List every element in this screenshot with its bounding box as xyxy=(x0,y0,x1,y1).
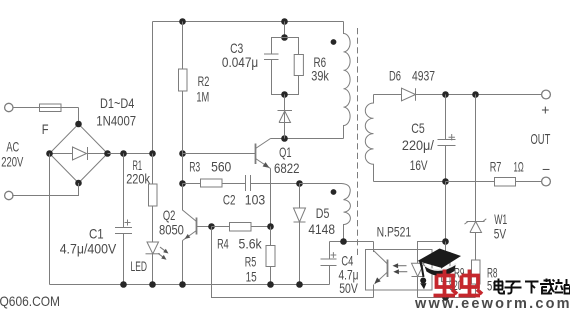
svg-text:AC: AC xyxy=(6,139,19,155)
label R3 560 xyxy=(189,159,231,175)
wire bridge left to ground rail xyxy=(49,154,51,285)
wire AC top to fuse xyxy=(13,107,79,109)
watermark www.eeworm.com xyxy=(414,296,570,309)
junction R3 node xyxy=(179,180,186,187)
junction Q2 emitter ground xyxy=(179,281,186,288)
wire AC bottom to bridge bottom xyxy=(12,183,78,196)
svg-text:Q1: Q1 xyxy=(279,144,292,160)
junction aux winding bottom xyxy=(340,238,347,245)
wire Q1 collector row xyxy=(271,138,344,140)
junction LED ground xyxy=(149,281,156,288)
transistor Q2 xyxy=(183,184,197,285)
label R7 1ohm xyxy=(490,158,524,174)
svg-text:220μ/: 220μ/ xyxy=(402,137,434,153)
resistor R9 xyxy=(442,242,451,298)
wire riser to top rail xyxy=(152,22,154,154)
junction top rail snubber xyxy=(281,18,288,25)
junction opto feed node xyxy=(442,238,449,245)
svg-text:D6: D6 xyxy=(389,68,401,84)
terminal OUT minus xyxy=(542,177,551,186)
transformer secondary winding xyxy=(365,95,373,182)
wire R2 junction down xyxy=(182,154,184,184)
wire bridge right to corner xyxy=(108,153,153,155)
wire Q1 emitter down xyxy=(270,169,272,227)
LED xyxy=(146,242,169,285)
svg-text:R4: R4 xyxy=(217,236,229,252)
svg-text:5.6k: 5.6k xyxy=(239,236,263,252)
label D6 4937 xyxy=(389,68,435,84)
svg-text:R7: R7 xyxy=(490,158,502,174)
label Q1 6822 xyxy=(274,144,300,176)
resistor R6 xyxy=(285,38,304,95)
fuse F xyxy=(40,104,62,112)
junction D5 top xyxy=(296,180,303,187)
junction R9 bottom xyxy=(442,294,449,301)
label Q2 8050 xyxy=(159,207,184,238)
transformer primary winding T1 xyxy=(344,22,351,139)
junction C5 bottom xyxy=(442,178,449,185)
svg-text:1Ω: 1Ω xyxy=(514,158,524,174)
svg-text:D5: D5 xyxy=(316,205,330,221)
wire aux row C4 to opto xyxy=(330,241,374,243)
svg-text:D1~D4: D1~D4 xyxy=(100,95,134,111)
zener diode snubber xyxy=(278,95,293,139)
svg-text:+: + xyxy=(541,102,549,118)
capacitor C2 xyxy=(222,175,300,191)
watermark Q606.COM xyxy=(0,294,60,309)
svg-text:N.P521: N.P521 xyxy=(377,223,412,239)
optocoupler N.P521 box xyxy=(366,250,433,291)
svg-text:15: 15 xyxy=(246,269,257,285)
junction rail riser R1 xyxy=(149,150,156,157)
resistor R7 xyxy=(446,178,542,187)
resistor R1 xyxy=(149,154,158,243)
wire opto LED cathode row xyxy=(418,297,476,299)
label F xyxy=(42,121,49,137)
opto light arrows xyxy=(393,263,408,274)
capacitor C4 xyxy=(321,242,337,285)
svg-text:4937: 4937 xyxy=(412,68,435,84)
svg-text:50V: 50V xyxy=(339,280,358,296)
transistor Q1 xyxy=(256,139,271,169)
svg-text:C1: C1 xyxy=(89,226,104,242)
resistor R2 xyxy=(179,22,188,154)
label R9 820 xyxy=(449,265,465,294)
resistor R3 xyxy=(183,179,223,187)
svg-text:1N4007: 1N4007 xyxy=(96,113,136,129)
svg-text:5V: 5V xyxy=(494,226,507,242)
junction Q2 base node xyxy=(208,223,215,230)
bridge rectifier D1~D4 xyxy=(50,124,108,183)
label LED xyxy=(131,258,148,274)
capacitor C5 xyxy=(438,95,456,182)
svg-text:4148: 4148 xyxy=(308,221,335,237)
label C1 4.7u/400V xyxy=(60,226,117,257)
wire opto LED feed xyxy=(418,242,446,250)
label R4 5.6k xyxy=(217,236,262,252)
junction rail C1 xyxy=(120,150,127,157)
junction rail R2 bottom xyxy=(179,150,186,157)
svg-text:−: − xyxy=(542,161,550,177)
svg-text:R5: R5 xyxy=(245,254,257,270)
wire C5 bottom to opto row xyxy=(445,182,447,242)
label R2 1M xyxy=(196,73,209,105)
wire R2 bottom to Q1 base xyxy=(183,153,256,155)
label D5 4148 xyxy=(308,205,335,237)
svg-text:F: F xyxy=(42,121,49,137)
resistor R8 xyxy=(472,260,481,298)
label C3 0.047u xyxy=(222,40,258,70)
label C5 220u/ 16V xyxy=(402,120,434,173)
svg-text:220k: 220k xyxy=(126,170,151,186)
svg-text:0.047μ: 0.047μ xyxy=(222,54,258,70)
phase dot feedback xyxy=(331,189,337,195)
label minus xyxy=(542,161,550,177)
junction C1 ground xyxy=(120,281,127,288)
junction bridge bottom xyxy=(75,180,82,187)
wire snubber drop xyxy=(284,22,286,38)
watermark chong chong red xyxy=(434,270,483,296)
svg-text:Q2: Q2 xyxy=(163,207,176,223)
diode D6 xyxy=(402,88,542,101)
junction C5 top xyxy=(442,91,449,98)
junction W1 top xyxy=(472,91,479,98)
junction R4 R5 emitter xyxy=(267,223,274,230)
svg-text:C5: C5 xyxy=(411,120,425,136)
wire secondary bottom row xyxy=(374,181,446,183)
label AC 220V xyxy=(1,139,24,170)
watermark hat logo xyxy=(418,249,462,290)
wire top rail xyxy=(153,21,344,23)
label R8 xyxy=(487,265,498,294)
label R6 39k xyxy=(311,54,329,84)
junction top rail R2 xyxy=(179,18,186,25)
wire opto return xyxy=(212,227,374,298)
svg-text:39k: 39k xyxy=(311,68,329,84)
svg-text:16V: 16V xyxy=(410,157,428,173)
svg-text:OUT: OUT xyxy=(531,131,551,148)
terminal AC input top xyxy=(5,103,13,111)
wire ground rail xyxy=(50,284,330,286)
label R1 220k xyxy=(126,157,151,187)
junction snubber bottom xyxy=(281,91,288,98)
junction collector zener xyxy=(281,135,288,142)
svg-text:R3: R3 xyxy=(189,159,200,175)
wire fuse to bridge top xyxy=(78,108,80,125)
capacitor C3 xyxy=(264,38,285,95)
junction snubber top xyxy=(281,34,288,41)
phase dot primary xyxy=(331,39,337,45)
svg-text:4.7μ/400V: 4.7μ/400V xyxy=(60,241,117,257)
junction R5 ground xyxy=(267,281,274,288)
svg-text:6822: 6822 xyxy=(274,160,300,176)
watermark dianzi xiazaizhan xyxy=(494,279,570,294)
terminal OUT plus xyxy=(542,90,551,99)
label N.P521 xyxy=(377,223,412,239)
resistor R5 xyxy=(266,227,275,285)
opto LED xyxy=(412,250,425,298)
label W1 5V xyxy=(494,211,508,242)
diode D5 xyxy=(294,184,306,285)
opto phototransistor xyxy=(374,242,388,298)
label C4 4.7u 50V xyxy=(339,252,359,296)
resistor R4 xyxy=(212,223,271,232)
label R5 15 xyxy=(245,254,257,285)
svg-text:8050: 8050 xyxy=(159,222,184,238)
label plus xyxy=(541,102,549,118)
label C2 103 xyxy=(223,191,265,207)
label D1~D4 1N4007 xyxy=(96,95,136,129)
wire secondary top to D6 xyxy=(374,94,402,96)
junction bridge left xyxy=(46,150,53,157)
transformer core dashed xyxy=(357,28,359,258)
svg-text:LED: LED xyxy=(131,258,148,274)
capacitor C1 xyxy=(115,154,132,285)
junction D5 ground xyxy=(296,281,303,288)
label OUT xyxy=(531,131,551,148)
svg-text:R2: R2 xyxy=(198,73,210,89)
junction bridge top xyxy=(75,121,82,128)
svg-text:www.eeworm.com: www.eeworm.com xyxy=(414,296,570,309)
svg-text:220V: 220V xyxy=(1,153,24,169)
svg-text:Q606.COM: Q606.COM xyxy=(0,294,60,309)
transformer feedback winding xyxy=(300,184,351,242)
svg-text:C2: C2 xyxy=(223,191,236,207)
svg-text:103: 103 xyxy=(245,191,266,207)
wire Q2 base xyxy=(197,226,212,228)
zener diode W1 xyxy=(465,95,487,261)
terminal AC input bottom xyxy=(5,191,13,199)
svg-text:1M: 1M xyxy=(196,89,209,105)
svg-text:560: 560 xyxy=(211,159,231,175)
junction bridge right xyxy=(104,150,111,157)
